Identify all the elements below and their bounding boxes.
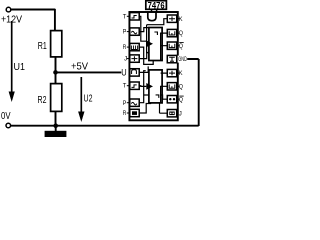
flip-flop 2 body	[149, 70, 162, 103]
pin 14 lead	[177, 45, 180, 47]
flip-flop 2 clock triangle	[146, 83, 153, 90]
wire GND pin to right	[178, 58, 199, 60]
flip-flop 1 J marker	[154, 32, 157, 35]
voltage arrow U2	[78, 77, 84, 122]
pin 8 lead	[127, 112, 130, 114]
wire pin6 to ff2 clock	[139, 85, 146, 88]
IC U1 7476 body	[129, 12, 177, 120]
pin 2 P box	[130, 28, 139, 35]
wire +5V horizontal to pin U	[56, 71, 122, 73]
pin 12 K box	[167, 69, 176, 76]
flip-flop 1 body	[149, 28, 162, 61]
pin 7 lead	[127, 102, 130, 104]
svg-text:J: J	[124, 56, 127, 63]
pin 5 U box	[130, 69, 139, 76]
svg-text:K: K	[179, 70, 183, 77]
wire pin5 vcc internal	[139, 66, 148, 72]
pin 8 R box	[130, 109, 139, 116]
wire node to R2	[55, 72, 57, 83]
wire pin3 to ff1 bottom	[139, 47, 153, 64]
wire pin16 down to ff1	[147, 19, 168, 53]
pin 13 label GND	[178, 56, 188, 63]
wire pin1 to ff1 clock	[139, 16, 146, 41]
pin 4 J box	[130, 55, 139, 62]
flip-flop 1 clock triangle	[146, 40, 153, 47]
svg-text:R1: R1	[38, 40, 47, 52]
pin 14 Qbar box	[167, 42, 176, 49]
svg-text:U1: U1	[14, 61, 26, 73]
pin 10 Qbar box	[167, 96, 176, 103]
wire R1 to node	[55, 57, 57, 72]
wire R2 to bottom	[55, 111, 57, 126]
svg-text:Q: Q	[179, 43, 183, 50]
svg-text:K: K	[179, 16, 183, 23]
terminal 0V	[6, 123, 11, 128]
pin 1 lead	[127, 15, 130, 17]
svg-text:R2: R2	[38, 94, 47, 106]
svg-text:T: T	[123, 13, 127, 20]
pin 11 lead	[177, 85, 180, 87]
pin 6 lead	[127, 85, 130, 87]
label box stubs	[152, 9, 157, 12]
svg-text:Q: Q	[179, 96, 183, 103]
svg-text:Q: Q	[179, 83, 183, 90]
pin 9 J box	[167, 110, 176, 117]
wire top vertical to R1	[54, 9, 56, 30]
svg-text:R: R	[123, 44, 127, 51]
notch	[148, 12, 156, 21]
pin 16 K box	[167, 15, 176, 22]
label box 7476	[146, 1, 167, 10]
wire ff2 outputs	[161, 73, 168, 103]
svg-text:GND: GND	[178, 56, 187, 63]
resistor R2	[51, 84, 62, 112]
wire pin7 to ff2	[139, 71, 149, 103]
svg-text:0V: 0V	[1, 110, 11, 122]
voltage arrow U1	[9, 21, 15, 102]
pin 7 P box	[130, 99, 139, 106]
pin 10 lead	[177, 98, 180, 100]
wire pin4 to ff1 left	[139, 53, 149, 59]
pin 15 lead	[177, 32, 180, 34]
pin 3 R box	[130, 43, 139, 50]
wire top horizontal	[11, 9, 55, 11]
pin 3 lead	[127, 46, 130, 48]
wire ff1 Q out	[161, 33, 168, 60]
svg-text:U: U	[121, 68, 126, 78]
wire bottom horizontal	[11, 125, 199, 127]
pin 12 lead	[177, 72, 180, 74]
pin 2 lead	[127, 31, 130, 33]
pin 15 Q box	[167, 29, 176, 36]
flip-flop 2 J marker	[156, 95, 159, 98]
node ground junction	[53, 123, 58, 128]
svg-text:P: P	[123, 100, 127, 107]
pin 13 GND box	[167, 55, 176, 62]
pin 1 T box	[130, 13, 139, 20]
svg-text:J: J	[179, 111, 182, 118]
svg-text:R: R	[123, 110, 127, 117]
resistor R1	[51, 31, 62, 57]
wire GND return right vertical	[198, 59, 200, 126]
node junction +5V	[53, 70, 58, 75]
svg-text:T: T	[123, 83, 127, 90]
wire pin8 to ff2 bottom	[139, 104, 151, 114]
wire pin2 to ff1 top	[139, 28, 149, 32]
svg-text:+5V: +5V	[71, 60, 88, 72]
svg-text:P: P	[123, 29, 127, 36]
svg-text:U2: U2	[84, 93, 93, 105]
svg-text:Q: Q	[179, 30, 183, 37]
pin 6 T box	[130, 82, 139, 89]
pin 11 Q box	[167, 83, 176, 90]
svg-text:7476: 7476	[148, 0, 165, 10]
wire to ground	[55, 126, 57, 131]
pin 4 lead	[127, 58, 130, 60]
pin 9 lead wire	[160, 103, 168, 113]
terminal +12V	[6, 7, 11, 12]
ground	[45, 131, 67, 137]
pin 16 lead	[177, 18, 180, 20]
